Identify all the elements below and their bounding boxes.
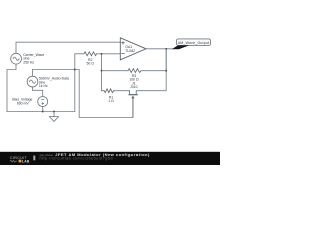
ground xyxy=(50,117,59,122)
svg-text:600 mV: 600 mV xyxy=(17,101,30,105)
wire R2 lead segments and minus input xyxy=(75,53,121,55)
junction node A at R3 wire xyxy=(101,70,103,72)
wire bottom rail xyxy=(7,111,75,113)
svg-text:1k Hz: 1k Hz xyxy=(39,84,48,88)
svg-text:50 Ω: 50 Ω xyxy=(87,61,95,65)
wire gate drop and gate run xyxy=(79,70,133,118)
svg-text:TL082: TL082 xyxy=(125,49,135,53)
wire carrier bottom jog to left rail xyxy=(7,64,16,111)
junction bias source at rail xyxy=(42,111,44,113)
wire R2 left corner down xyxy=(74,54,76,70)
wire junction down to rail xyxy=(74,70,76,112)
wire R3 leads xyxy=(102,70,167,72)
wire audio top lead xyxy=(32,70,34,77)
logo orange block xyxy=(19,160,22,163)
node flag pointer AM_Wave_Output xyxy=(172,45,190,49)
junction ground stem at rail xyxy=(53,111,55,113)
svg-text:LAB: LAB xyxy=(22,159,30,163)
wire ground stem xyxy=(53,112,55,117)
wire audio bottom jog to bias top xyxy=(33,87,43,96)
footer bar xyxy=(0,152,220,165)
op-amp plus input sign xyxy=(121,41,124,44)
resistor R3 xyxy=(128,69,141,73)
source Carrier_Wave xyxy=(11,53,22,64)
wire op-amp output xyxy=(146,48,173,50)
source Bias_Voltage xyxy=(38,97,48,107)
op-amp minus input sign xyxy=(121,52,124,54)
wire node A vertical xyxy=(101,54,103,91)
junction output node at flag xyxy=(165,48,167,50)
wire bias bottom lead xyxy=(42,106,44,111)
wire output vertical to R3 xyxy=(165,49,167,71)
svg-text:AM_Wave_Output: AM_Wave_Output xyxy=(178,41,210,45)
source 500mV_Audio-Data xyxy=(27,76,38,87)
resistor R1 xyxy=(102,89,115,93)
logo zigzag xyxy=(10,160,17,162)
transistor J1 JFET xyxy=(129,91,138,118)
junction node A at inverting input wire xyxy=(101,53,103,55)
wire top from carrier to op-amp + input xyxy=(16,42,120,53)
svg-text:250 Hz: 250 Hz xyxy=(23,61,34,65)
node AM_Wave_Output label box xyxy=(177,39,211,45)
junction audio wire / R2 branch xyxy=(74,69,76,71)
wire R1 right lead xyxy=(114,90,130,92)
junction R3 at output vertical xyxy=(165,70,167,72)
wire audio to gate corner xyxy=(33,69,80,71)
svg-text:http://circuitlab.com/c/zbe5e3: http://circuitlab.com/c/zbe5e3t7g5d xyxy=(40,156,113,160)
svg-text:J310: J310 xyxy=(130,85,138,89)
wire output down to jfet source xyxy=(136,49,166,91)
op-amp OA1 xyxy=(120,38,146,60)
svg-text:1 Ω: 1 Ω xyxy=(108,99,114,103)
resistor R2 xyxy=(84,52,97,56)
footer separator xyxy=(33,156,35,161)
